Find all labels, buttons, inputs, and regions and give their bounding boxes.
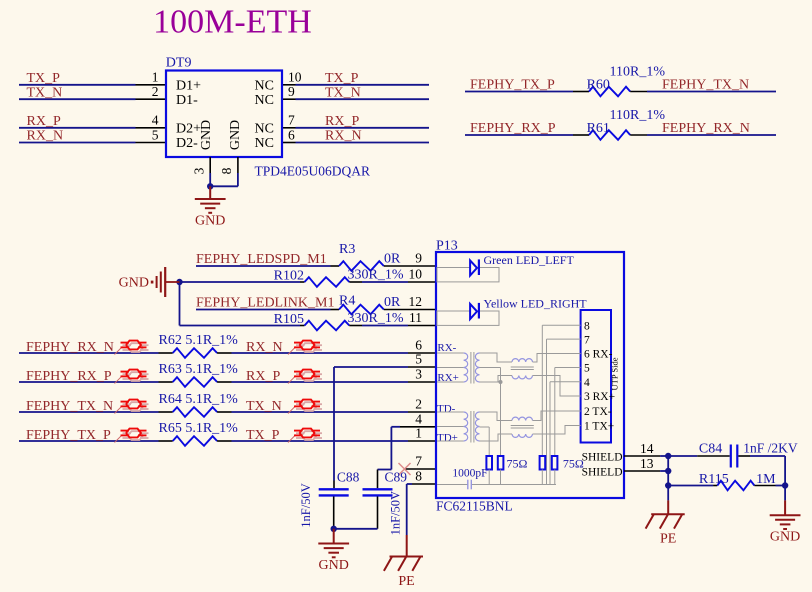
svg-text:14: 14 bbox=[640, 441, 654, 456]
svg-text:100M-ETH: 100M-ETH bbox=[153, 4, 312, 41]
svg-text:R64 5.1R_1%: R64 5.1R_1% bbox=[159, 392, 239, 407]
svg-text:6: 6 bbox=[415, 338, 422, 353]
svg-text:R115: R115 bbox=[699, 472, 729, 487]
svg-text:GND: GND bbox=[319, 558, 349, 573]
svg-text:FEPHY_RX_P: FEPHY_RX_P bbox=[470, 121, 556, 136]
svg-text:TD+: TD+ bbox=[437, 432, 458, 444]
svg-text:C84: C84 bbox=[699, 442, 722, 457]
svg-text:R4: R4 bbox=[339, 294, 355, 309]
svg-text:FEPHY_RX_N: FEPHY_RX_N bbox=[26, 340, 114, 355]
svg-text:10: 10 bbox=[409, 267, 423, 282]
svg-text:2 TX-: 2 TX- bbox=[584, 406, 612, 418]
svg-text:8: 8 bbox=[415, 469, 422, 484]
svg-text:110R_1%: 110R_1% bbox=[610, 65, 666, 80]
svg-text:7: 7 bbox=[415, 454, 422, 469]
svg-text:R3: R3 bbox=[339, 242, 355, 257]
svg-text:8: 8 bbox=[584, 321, 590, 333]
svg-text:FEPHY_TX_P: FEPHY_TX_P bbox=[470, 78, 555, 93]
svg-text:75Ω: 75Ω bbox=[507, 457, 528, 471]
svg-text:10: 10 bbox=[288, 70, 302, 85]
svg-text:75Ω: 75Ω bbox=[563, 457, 584, 471]
svg-text:5: 5 bbox=[584, 363, 590, 375]
svg-text:5: 5 bbox=[415, 352, 422, 367]
svg-text:RX_N: RX_N bbox=[246, 340, 283, 355]
svg-text:R102: R102 bbox=[274, 269, 304, 284]
svg-text:C88: C88 bbox=[337, 469, 360, 484]
svg-text:UTP Side: UTP Side bbox=[610, 357, 620, 390]
svg-text:4: 4 bbox=[584, 377, 590, 389]
svg-text:TPD4E05U06DQAR: TPD4E05U06DQAR bbox=[255, 164, 371, 179]
svg-text:4: 4 bbox=[152, 113, 159, 128]
svg-text:330R_1%: 330R_1% bbox=[348, 311, 404, 326]
svg-text:RX_P: RX_P bbox=[325, 114, 359, 129]
svg-text:TX_P: TX_P bbox=[246, 428, 280, 443]
svg-text:1000pF: 1000pF bbox=[452, 467, 487, 479]
svg-text:6: 6 bbox=[288, 127, 295, 142]
svg-text:R65 5.1R_1%: R65 5.1R_1% bbox=[159, 421, 239, 436]
svg-text:9: 9 bbox=[415, 251, 422, 266]
svg-text:1M: 1M bbox=[756, 472, 776, 487]
svg-text:0R: 0R bbox=[384, 295, 401, 310]
svg-text:TX_N: TX_N bbox=[27, 85, 63, 100]
svg-text:FEPHY_LEDLINK_M1: FEPHY_LEDLINK_M1 bbox=[196, 296, 334, 311]
svg-text:GND: GND bbox=[119, 276, 149, 291]
svg-text:TX_N: TX_N bbox=[246, 399, 282, 414]
svg-text:PE: PE bbox=[660, 532, 676, 547]
svg-text:NC: NC bbox=[255, 121, 274, 136]
svg-text:NC: NC bbox=[255, 93, 274, 108]
svg-text:D1-: D1- bbox=[176, 93, 198, 108]
svg-text:FEPHY_TX_N: FEPHY_TX_N bbox=[662, 78, 749, 93]
svg-text:R60: R60 bbox=[587, 78, 610, 93]
svg-text:D2-: D2- bbox=[176, 136, 198, 151]
svg-text:12: 12 bbox=[409, 294, 423, 309]
svg-text:NC: NC bbox=[255, 136, 274, 151]
svg-text:2: 2 bbox=[415, 397, 422, 412]
svg-text:4: 4 bbox=[415, 411, 422, 426]
svg-text:FC62115BNL: FC62115BNL bbox=[436, 499, 513, 514]
svg-text:TX_P: TX_P bbox=[325, 71, 359, 86]
svg-text:7: 7 bbox=[584, 334, 590, 346]
svg-text:DT9: DT9 bbox=[166, 56, 192, 71]
svg-text:TX_P: TX_P bbox=[27, 71, 61, 86]
svg-text:RX_P: RX_P bbox=[27, 114, 61, 129]
svg-text:1nF /2KV: 1nF /2KV bbox=[743, 441, 798, 456]
svg-text:D1+: D1+ bbox=[176, 78, 201, 93]
svg-text:3: 3 bbox=[192, 167, 207, 174]
svg-text:11: 11 bbox=[409, 310, 422, 325]
svg-text:RX_N: RX_N bbox=[325, 129, 362, 144]
svg-text:FEPHY_RX_P: FEPHY_RX_P bbox=[26, 369, 112, 384]
svg-text:3: 3 bbox=[415, 367, 422, 382]
svg-text:1 TX+: 1 TX+ bbox=[584, 421, 614, 433]
svg-text:13: 13 bbox=[640, 456, 654, 471]
svg-text:R63 5.1R_1%: R63 5.1R_1% bbox=[159, 362, 239, 377]
svg-text:R105: R105 bbox=[274, 312, 304, 327]
svg-text:D2+: D2+ bbox=[176, 121, 201, 136]
svg-text:RX-: RX- bbox=[437, 342, 456, 354]
svg-text:2: 2 bbox=[152, 84, 159, 99]
svg-text:1nF/50V: 1nF/50V bbox=[389, 491, 403, 535]
svg-text:FEPHY_TX_P: FEPHY_TX_P bbox=[26, 428, 111, 443]
svg-text:SHIELD: SHIELD bbox=[582, 452, 623, 464]
svg-text:1: 1 bbox=[152, 70, 159, 85]
svg-text:FEPHY_TX_N: FEPHY_TX_N bbox=[26, 399, 113, 414]
svg-text:7: 7 bbox=[288, 113, 295, 128]
svg-text:FEPHY_LEDSPD_M1: FEPHY_LEDSPD_M1 bbox=[196, 252, 327, 267]
svg-text:GND: GND bbox=[228, 120, 243, 150]
svg-text:GND: GND bbox=[770, 530, 800, 545]
svg-text:8: 8 bbox=[219, 167, 234, 174]
svg-text:R62 5.1R_1%: R62 5.1R_1% bbox=[159, 333, 239, 348]
svg-text:3 RX+: 3 RX+ bbox=[584, 391, 615, 403]
svg-text:5: 5 bbox=[152, 127, 159, 142]
svg-text:1: 1 bbox=[415, 426, 422, 441]
svg-text:RX_N: RX_N bbox=[27, 129, 64, 144]
svg-text:110R_1%: 110R_1% bbox=[610, 108, 666, 123]
svg-text:6 RX-: 6 RX- bbox=[584, 349, 613, 361]
svg-text:RX_P: RX_P bbox=[246, 369, 280, 384]
svg-text:TD-: TD- bbox=[437, 403, 456, 415]
svg-text:P13: P13 bbox=[436, 239, 458, 254]
svg-text:0R: 0R bbox=[384, 252, 401, 267]
svg-text:Green LED_LEFT: Green LED_LEFT bbox=[484, 253, 575, 267]
svg-text:GND: GND bbox=[199, 120, 214, 150]
svg-text:330R_1%: 330R_1% bbox=[348, 268, 404, 283]
svg-text:Yellow LED_RIGHT: Yellow LED_RIGHT bbox=[484, 297, 588, 311]
svg-text:FEPHY_RX_N: FEPHY_RX_N bbox=[662, 121, 750, 136]
svg-text:9: 9 bbox=[288, 84, 295, 99]
svg-text:1nF/50V: 1nF/50V bbox=[299, 483, 313, 527]
svg-text:SHIELD: SHIELD bbox=[582, 467, 623, 479]
svg-text:GND: GND bbox=[195, 214, 225, 229]
svg-text:C89: C89 bbox=[385, 469, 408, 484]
svg-text:NC: NC bbox=[255, 78, 274, 93]
svg-text:R61: R61 bbox=[587, 121, 610, 136]
svg-text:TX_N: TX_N bbox=[325, 85, 361, 100]
svg-text:PE: PE bbox=[398, 574, 414, 587]
